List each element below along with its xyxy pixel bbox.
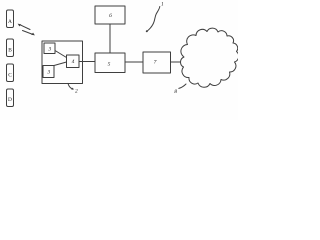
- box 5: [95, 53, 125, 73]
- svg-text:2: 2: [75, 88, 78, 94]
- svg-text:5: 5: [108, 61, 111, 67]
- label 2 leader: [68, 83, 74, 90]
- outer box 2: [42, 41, 83, 84]
- box 3 upper: [44, 43, 55, 54]
- wire box7 to cloud: [171, 61, 185, 63]
- svg-text:C: C: [8, 72, 12, 78]
- box D: [7, 89, 14, 107]
- box B: [7, 39, 14, 57]
- box 4: [67, 55, 80, 68]
- wire box5 to box7: [125, 61, 143, 63]
- wire box3 upper to box4: [55, 51, 67, 58]
- svg-text:8: 8: [174, 89, 177, 95]
- box 7: [143, 52, 171, 73]
- wireless link arrow up-left: [18, 24, 30, 30]
- box 6: [95, 6, 125, 24]
- box C: [7, 64, 14, 82]
- svg-text:4: 4: [72, 58, 75, 65]
- arrow 1 leader: [146, 7, 160, 33]
- svg-text:7: 7: [154, 60, 157, 66]
- svg-text:3: 3: [47, 46, 51, 52]
- cloud 8: [181, 28, 239, 87]
- svg-text:D: D: [8, 97, 12, 103]
- wire box3 lower to box4: [54, 62, 67, 66]
- label 8 leader: [179, 84, 186, 88]
- wire box4 to box5: [79, 61, 95, 63]
- svg-text:3: 3: [46, 69, 50, 75]
- svg-text:1: 1: [161, 1, 164, 7]
- wireless link arrow down-right: [23, 31, 35, 36]
- box 3 lower: [43, 66, 54, 78]
- box A: [7, 10, 14, 28]
- svg-text:6: 6: [109, 13, 112, 19]
- svg-text:B: B: [8, 47, 12, 53]
- svg-text:A: A: [8, 19, 12, 25]
- wire box6 to box5: [109, 24, 111, 53]
